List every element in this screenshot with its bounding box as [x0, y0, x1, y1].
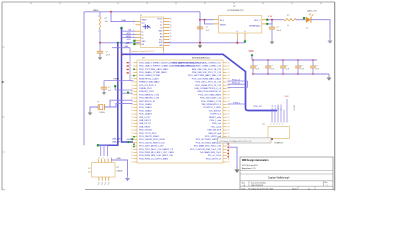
op U1 USB power switch box: [141, 17, 164, 48]
svg-text:PIO0_PWM_MCU_BDLY_OUT_CAP0: PIO0_PWM_MCU_BDLY_OUT_CAP0: [139, 151, 175, 154]
C9 junctions: [312, 59, 314, 75]
C5 designator and value: [255, 66, 260, 71]
svg-text:MM Design Automation: MM Design Automation: [242, 159, 269, 162]
svg-text:21: 21: [131, 133, 133, 135]
svg-text:USB_DM: USB_DM: [112, 138, 121, 140]
svg-text:CTRL: CTRL: [126, 42, 131, 44]
svg-text:PIO1_19/DTR_SSEL1: PIO1_19/DTR_SSEL1: [139, 136, 160, 138]
svg-text:13: 13: [170, 27, 172, 29]
U3 left pin stubs: [133, 63, 137, 162]
svg-text:21: 21: [131, 126, 133, 128]
svg-text:1k: 1k: [287, 25, 289, 27]
svg-text:Caption Walkthrough: Caption Walkthrough: [268, 176, 290, 179]
green junction dots lower-left: [114, 85, 129, 94]
svg-text:RESET_mba: RESET_mba: [209, 117, 222, 119]
svg-text:Sheet: Sheet: [292, 187, 297, 190]
svg-text:21: 21: [131, 149, 133, 151]
wires from data pair to U1 pins: [122, 31, 136, 37]
svg-text:28: 28: [228, 120, 230, 122]
svg-text:VOUT: VOUT: [157, 18, 163, 20]
U1 USB logo glyph: [143, 24, 152, 29]
svg-text:3-4: 3-4: [88, 171, 91, 173]
svg-text:PIO0_16/AD5_CT32B1_MAT3: PIO0_16/AD5_CT32B1_MAT3: [139, 71, 168, 74]
thick wire USB data line A vertical to connector: [98, 43, 118, 146]
svg-text:Thursday, December 30, 2021: Thursday, December 30, 2021: [248, 187, 273, 190]
svg-text:SHD: SHD: [122, 20, 127, 22]
svg-text:PIO0_9/MOSI0_CT16: PIO0_9/MOSI0_CT16: [139, 98, 160, 100]
svg-text:PIO0_PWM_ana_GPIO1_MAT2: PIO0_PWM_ana_GPIO1_MAT2: [139, 157, 169, 160]
svg-text:PIO1_21/DCD_MISO1_CLK: PIO1_21/DCD_MISO1_CLK: [139, 142, 165, 144]
C9 designator and value: [315, 66, 320, 71]
svg-text:P?: P?: [263, 124, 265, 126]
svg-text:21: 21: [131, 110, 133, 112]
green dots at USB data entry: [127, 136, 135, 148]
SWD vertical wires: [272, 99, 287, 123]
J1 bottom GND labels: [97, 181, 111, 186]
svg-text:OUT_J: OUT_J: [254, 20, 260, 22]
svg-text:USB_DM_dm8: USB_DM_dm8: [207, 130, 222, 132]
op U3 MCU box: [137, 60, 223, 163]
title date row: [242, 187, 310, 190]
U2 left pin stubs: [214, 20, 219, 24]
parameter set gray box: [218, 138, 272, 143]
svg-text:PRE_AKE_PWRDY_BUSY3_BVAGU_CVKH: PRE_AKE_PWRDY_BUSY3_BVAGU_CVKHN_CVO: [173, 61, 221, 64]
svg-text:21: 21: [131, 113, 133, 115]
J1 top pin stubs: [98, 159, 111, 163]
svg-text:21: 21: [131, 145, 133, 147]
svg-text:Y?: Y?: [97, 102, 99, 104]
wires VBUS/data into USB connector top pins: [98, 145, 107, 156]
svg-text:LT1962EMS8 (P5): LT1962EMS8 (P5): [227, 10, 244, 12]
svg-text:10k: 10k: [105, 21, 108, 23]
svg-text:PIO0_17/CT32B0_CAP0_UAD3: PIO0_17/CT32B0_CAP0_UAD3: [139, 68, 169, 71]
svg-text:I386-12345678: I386-12345678: [251, 185, 263, 187]
svg-text:VSS_3_PIO: VSS_3_PIO: [139, 117, 150, 119]
svg-text:USB_VBUS: USB_VBUS: [139, 126, 151, 128]
svg-text:GND: GND: [158, 30, 163, 32]
svg-text:PRE_USB_SOF_PIO1_27_C13: PRE_USB_SOF_PIO1_27_C13: [192, 72, 222, 74]
svg-text:TDO/PIO1_2_SWO: TDO/PIO1_2_SWO: [203, 107, 221, 109]
svg-text:21: 21: [131, 123, 133, 125]
svg-text:SOMROS: SOMROS: [274, 142, 283, 144]
svg-text:RESET/PIO0_0_AD3: RESET/PIO0_0_AD3: [139, 77, 159, 80]
U1 left pin stubs: [136, 22, 141, 44]
wire VBUS horizontal rail: [84, 11, 200, 13]
wire VBUS left drop to USB connector (thick): [83, 12, 85, 146]
svg-text:11: 11: [170, 33, 172, 35]
svg-text:TMS_SWDIO/PIO1_3: TMS_SWDIO/PIO1_3: [201, 104, 222, 106]
svg-text:28: 28: [228, 66, 230, 68]
green dot under VDD: [251, 54, 253, 56]
svg-text:C?: C?: [300, 66, 302, 68]
capacitor C2 designator and value: [206, 27, 210, 32]
resistor R2 LED series: [284, 19, 296, 21]
svg-text:GACL-T20: GACL-T20: [307, 10, 317, 13]
svg-text:VDD_IO3_PIO2_3: VDD_IO3_PIO2_3: [139, 85, 157, 87]
svg-text:Anywhere, CO: Anywhere, CO: [242, 167, 256, 170]
svg-text:C?: C?: [270, 66, 272, 68]
title address lines: [242, 164, 258, 170]
svg-text:XTALIN_PIO2: XTALIN_PIO2: [139, 87, 153, 90]
svg-text:GND: GND: [142, 41, 147, 43]
U3 right pin stubs: [223, 63, 227, 162]
svg-text:PRE_ALE_PWROT_UBWY_CUBIN_CVBNe: PRE_ALE_PWROT_UBWY_CUBIN_CVBNe_C10: [175, 65, 221, 68]
svg-text:USB_DP_dp8: USB_DP_dp8: [208, 133, 222, 135]
svg-text:TDO_S: TDO_S: [278, 106, 280, 111]
resistor R1 pin numbers: [98, 16, 99, 33]
svg-text:PIO1_26/CT32B0_MAT2_UAD_C13: PIO1_26/CT32B0_MAT2_UAD_C13: [188, 74, 222, 77]
svg-text:TXD_samd: TXD_samd: [211, 126, 221, 128]
svg-text:PIO0_4/SCL_PIO1_24_C13: PIO0_4/SCL_PIO1_24_C13: [195, 82, 221, 84]
svg-text:U?: U?: [117, 167, 119, 169]
svg-text:PIO0_15/AD4_CT32B1: PIO0_15/AD4_CT32B1: [139, 74, 161, 77]
cap bank top rail: [252, 59, 317, 61]
svg-text:R?: R?: [287, 15, 289, 17]
svg-text:USB_DM_P2: USB_DM_P2: [139, 120, 152, 122]
svg-text:PIO0_1_nba: PIO0_1_nba: [210, 120, 222, 122]
svg-text:21: 21: [131, 120, 133, 122]
svg-text:21: 21: [131, 97, 133, 99]
svg-text:28: 28: [228, 162, 230, 164]
svg-text:8: 8: [170, 42, 171, 44]
capacitor C1 with ground: [97, 43, 103, 60]
sheet frame top border with zone ticks: [2, 2, 335, 4]
svg-text:21: 21: [131, 136, 133, 138]
bypass capacitor C6: [265, 60, 271, 74]
capacitor C3 designator and value: [277, 27, 282, 32]
U1 right pin stubs: [164, 19, 169, 46]
J1 left labels: [88, 168, 91, 173]
svg-text:2: 2: [133, 23, 134, 25]
svg-text:PIO0_6/SCK0: PIO0_6/SCK0: [139, 130, 153, 132]
svg-text:Rev: Rev: [325, 182, 328, 184]
svg-text:C?: C?: [315, 66, 317, 68]
U1 bottom pin stub down: [163, 48, 165, 53]
svg-text:PIO0_2-0: PIO0_2-0: [254, 106, 262, 108]
svg-text:21: 21: [131, 91, 133, 93]
svg-text:28: 28: [228, 82, 230, 84]
svg-text:PIO0_10: PIO0_10: [232, 83, 241, 85]
svg-text:12: 12: [170, 30, 172, 32]
C7 designator and value: [285, 66, 290, 71]
capacitor C4 designator: [108, 87, 112, 92]
resistor R1 vertical with pin stubs: [99, 12, 101, 43]
green junction at top of USB data pair: [120, 27, 123, 30]
svg-text:28: 28: [228, 69, 230, 71]
SWD vertical net labels: [272, 104, 283, 111]
svg-text:USB_DP_P2: USB_DP_P2: [139, 123, 152, 125]
cap bank bottom rail: [252, 73, 329, 75]
svg-text:PIO1_25/CT32B0_MAT1_UAD3: PIO1_25/CT32B0_MAT1_UAD3: [192, 77, 222, 80]
svg-text:28: 28: [228, 72, 230, 74]
svg-text:USB_FTOGGLE/PIO0_22: USB_FTOGGLE/PIO0_22: [197, 91, 222, 93]
U3 left pin numbers top group (red): [127, 62, 135, 77]
bypass capacitor C7: [280, 60, 286, 74]
green dot on U2 gnd stub: [244, 40, 246, 42]
svg-text:Customize for Signal Use P0_12: Customize for Signal Use P0_12: [130, 50, 154, 53]
svg-text:21: 21: [131, 88, 133, 90]
svg-text:C?: C?: [285, 66, 287, 68]
svg-text:XTALOUT_PIO2: XTALOUT_PIO2: [139, 90, 155, 93]
svg-text:PIO2_0/DTR_x3: PIO2_0/DTR_x3: [206, 158, 222, 160]
LED D1: [306, 14, 314, 23]
svg-text:21: 21: [131, 152, 133, 154]
svg-text:PWM?: PWM?: [114, 78, 120, 80]
svg-text:1 3 5 7 9: 1 3 5 7 9: [271, 124, 284, 126]
title block outer box: [240, 157, 333, 190]
sheet frame bottom border: [2, 189, 335, 191]
svg-text:PIO1_22/RI_MOSI1_CLK2: PIO1_22/RI_MOSI1_CLK2: [139, 146, 164, 148]
wire 3V3 from U2 output: [268, 20, 284, 24]
connector P1 SWD header box: [268, 127, 290, 139]
svg-text:TCK_SWCLK: TCK_SWCLK: [208, 110, 221, 112]
C6 designator and value: [270, 66, 275, 71]
wire to U2 EN pin: [205, 20, 214, 24]
svg-text:28: 28: [228, 78, 230, 80]
title block vertical dividers: [249, 181, 324, 190]
svg-text:21: 21: [131, 117, 133, 119]
C5 junctions: [252, 59, 254, 75]
C7 junctions: [282, 59, 284, 75]
svg-text:21: 21: [131, 155, 133, 157]
ground below input cap: [198, 43, 203, 48]
sheet frame right border: [334, 2, 336, 191]
U3 interior pin names left column: [139, 61, 201, 160]
svg-text:GND: GND: [117, 158, 122, 160]
capacitor C1 designator and value: [106, 51, 111, 56]
svg-text:21: 21: [131, 161, 133, 163]
svg-text:Document Number: Document Number: [251, 181, 266, 184]
svg-text:SHDN: SHDN: [220, 24, 226, 26]
U1 left pin numbers: [133, 20, 134, 38]
C8 designator and value: [300, 66, 305, 71]
U2 bottom pin marks: [237, 31, 247, 33]
svg-text:14: 14: [170, 24, 172, 26]
net labels USB_DM USB_DP: [112, 138, 121, 143]
svg-text:TxD_MAIN_NRF_TxD2: TxD_MAIN_NRF_TxD2: [200, 151, 222, 154]
svg-text:28: 28: [228, 88, 230, 90]
svg-text:21: 21: [131, 75, 133, 77]
bypass capacitor C8: [295, 60, 301, 74]
junction at regulator ground rail: [199, 42, 201, 44]
svg-text:TDI/PIO1_0: TDI/PIO1_0: [210, 114, 222, 116]
svg-text:28: 28: [228, 110, 230, 112]
svg-text:21: 21: [131, 107, 133, 109]
svg-text:USB_CONNECT/PIO0_6_L3: USB_CONNECT/PIO0_6_L3: [195, 88, 222, 90]
wire VBUS corner down to regulator input: [199, 12, 201, 43]
U1 right pin numbers: [170, 18, 172, 47]
U3 interior pin names right column: [173, 61, 222, 160]
svg-text:28: 28: [228, 85, 230, 87]
svg-text:PIO0_PWM_NRF_CLK1_MAT1_C30: PIO0_PWM_NRF_CLK1_MAT1_C30: [139, 154, 174, 157]
U3 left pin numbers: [131, 75, 133, 163]
svg-text:1: 1: [98, 16, 99, 18]
title block horizontal dividers: [240, 171, 333, 187]
svg-text:TMS_SW: TMS_SW: [272, 104, 274, 111]
svg-text:21: 21: [131, 94, 133, 96]
svg-text:28: 28: [228, 107, 230, 109]
svg-text:Date:: Date:: [242, 187, 247, 190]
svg-text:9: 9: [170, 39, 171, 41]
svg-text:PIO1_20/DSR_SCK1_MOSI: PIO1_20/DSR_SCK1_MOSI: [139, 139, 165, 141]
svg-text:28: 28: [228, 117, 230, 119]
U3 right pin red dots lower group: [227, 143, 229, 157]
connector J1 USB-B box: [92, 163, 116, 178]
svg-text:MC9S08JM60CLD: MC9S08JM60CLD: [192, 58, 211, 60]
ground at cap bank end: [326, 74, 331, 81]
svg-text:U?: U?: [233, 6, 235, 8]
op U2 LDO regulator box: [219, 16, 262, 33]
green junction VBUS joins thick pair: [97, 144, 100, 147]
svg-text:SENSE/ADJ: SENSE/ADJ: [249, 24, 260, 27]
directive label right of parameter box: [271, 138, 283, 144]
C6 junctions: [267, 59, 269, 75]
svg-text:VDD: VDD: [249, 51, 254, 53]
svg-text:PIO0_21/CT16B1_MAT0: PIO0_21/CT16B1_MAT0: [198, 93, 221, 96]
svg-text:AKE_USB_CDE_PIO1_28_C13: AKE_USB_CDE_PIO1_28_C13: [192, 68, 222, 71]
svg-text:PIO_x2_CLK0: PIO_x2_CLK0: [208, 155, 222, 157]
svg-text:16: 16: [170, 18, 172, 20]
junction R1/C1 bottom: [99, 42, 101, 44]
svg-text:21: 21: [131, 142, 133, 144]
wire 3V3 rail (regulator ground return rail): [100, 42, 245, 44]
svg-text:28: 28: [228, 133, 230, 135]
svg-text:5-2: 5-2: [88, 168, 91, 170]
svg-text:PIO0_14/AD3: PIO0_14/AD3: [139, 113, 152, 116]
svg-text:pO Voltage: PIO0/Adm/GPIO=3.3V: pO Voltage: PIO0/Adm/GPIO=3.3V +C3: [220, 140, 252, 143]
svg-text:PIO0_2/SSEL0_CT16: PIO0_2/SSEL0_CT16: [201, 101, 222, 103]
svg-text:7: 7: [170, 45, 171, 47]
svg-text:3 2 1 4: 3 2 1 4: [99, 157, 114, 159]
svg-text:21: 21: [131, 158, 133, 160]
junction regulator IN: [199, 19, 201, 21]
svg-text:28: 28: [228, 158, 230, 160]
wire crystal to ground: [90, 107, 98, 111]
wire shield GND with label: [111, 158, 127, 176]
svg-text:PIO0_8/MISO0_CT16: PIO0_8/MISO0_CT16: [139, 94, 160, 96]
wires XTALIN XTALOUT to MCU: [104, 100, 132, 107]
U2 designator and part number: [227, 6, 244, 12]
wires MCU right pins to SWD column: [228, 81, 248, 104]
svg-text:21: 21: [131, 78, 133, 80]
wire to U2 IN pin: [200, 19, 214, 21]
U2 right pin green dots: [266, 19, 268, 26]
svg-text:10uF: 10uF: [277, 30, 282, 32]
U2 pin names: [220, 20, 260, 28]
svg-text:3.3V: 3.3V: [285, 96, 290, 98]
junction EN tap: [204, 19, 206, 21]
svg-text:PIO0_5/SDA_PIO1_23_C13: PIO0_5/SDA_PIO1_23_C13: [195, 84, 222, 87]
wire PWM to MCU: [104, 80, 133, 82]
ground at USB shield: [125, 176, 130, 181]
J1 designator USB-B: [117, 167, 124, 172]
svg-text:IN_J: IN_J: [220, 20, 224, 22]
svg-text:28: 28: [228, 91, 230, 93]
ground below crystal: [88, 111, 93, 116]
C8 junctions: [297, 59, 299, 75]
junction on VBUS at U1 tap: [110, 11, 112, 13]
wire resistor to LED: [296, 19, 306, 21]
svg-text:PIO0_1: PIO0_1: [234, 102, 242, 104]
bypass capacitor C9: [310, 60, 316, 74]
svg-text:28: 28: [228, 94, 230, 96]
svg-text:28: 28: [228, 62, 230, 64]
svg-text:21: 21: [131, 129, 133, 131]
svg-text:PIO0_11/AD0: PIO0_11/AD0: [139, 103, 152, 106]
wire USB_DP into MCU: [127, 138, 134, 140]
title size/doc row: [242, 181, 328, 187]
ground at LED return: [327, 38, 332, 43]
capacitor C3 on 3V3 output with ground: [269, 20, 275, 45]
wire VDD feed to cap bank: [251, 55, 253, 60]
crystal Y1: [98, 104, 104, 110]
svg-text:28: 28: [228, 98, 230, 100]
junction 3V3 at output cap: [271, 19, 273, 21]
svg-text:10: 10: [170, 36, 172, 38]
U1 right pin names: [157, 18, 163, 47]
U1 left side net labels: [126, 30, 132, 45]
svg-text:GPO: GPO: [127, 39, 132, 41]
svg-text:1: 1: [327, 185, 328, 187]
green pin dots where USB pair crosses rail: [117, 42, 123, 44]
net labels at rail crossing: [125, 43, 129, 48]
svg-text:RESET: RESET: [294, 105, 296, 111]
svg-text:28: 28: [228, 114, 230, 116]
svg-text:D+: D+: [142, 35, 144, 37]
svg-text:21: 21: [131, 81, 133, 83]
svg-text:2: 2: [98, 31, 99, 33]
svg-text:C?: C?: [108, 87, 110, 89]
green dot at LED anode: [303, 17, 305, 19]
svg-text:123 Tech park Dr: 123 Tech park Dr: [242, 164, 258, 167]
svg-text:C?: C?: [255, 66, 257, 68]
sheet frame left border with zone ticks: [2, 2, 5, 190]
svg-text:USB_DP: USB_DP: [112, 141, 121, 143]
U3 right pin numbers: [228, 62, 230, 163]
thick bus horizontal / diagonal / vertical: [122, 54, 277, 110]
svg-text:28: 28: [228, 130, 230, 132]
svg-text:SWCLK/PIO0_10: SWCLK/PIO0_10: [139, 101, 156, 103]
svg-text:ILIM: ILIM: [159, 42, 163, 44]
svg-text:1: 1: [133, 20, 134, 22]
svg-text:RXD_ua3: RXD_ua3: [212, 123, 222, 125]
wire MCU bottom right to ground: [228, 147, 238, 168]
svg-text:PIO0_12/AD1: PIO0_12/AD1: [139, 106, 152, 109]
svg-text:PIO0_TXD1_BDLY_CLK_MAT02_C3: PIO0_TXD1_BDLY_CLK_MAT02_C3: [139, 148, 174, 151]
svg-text:21: 21: [131, 101, 133, 103]
capacitor C2 on regulator input: [197, 27, 203, 29]
J1 bottom pin stubs: [99, 177, 109, 181]
svg-text:USB-B: USB-B: [117, 170, 124, 172]
wire LED cathode to ground: [311, 20, 330, 39]
U1 green connected-pin bars: [133, 40, 135, 45]
wires into MCU lower-left pins: [115, 86, 132, 93]
svg-text:28: 28: [228, 126, 230, 128]
svg-text:12MHz: 12MHz: [99, 112, 105, 114]
ground MCU bottom right: [234, 167, 239, 173]
svg-text:PWM0/CT16B0_MAT2: PWM0/CT16B0_MAT2: [139, 81, 161, 84]
svg-text:21: 21: [131, 104, 133, 106]
svg-text:3.3V: 3.3V: [268, 16, 273, 18]
svg-text:PIO0_7/CTS_PIO2: PIO0_7/CTS_PIO2: [139, 133, 157, 135]
svg-text:21: 21: [131, 85, 133, 87]
U1 left inside pin names: [142, 19, 148, 46]
svg-text:15: 15: [170, 21, 172, 23]
capacitor C4 on PWM node with ground: [101, 81, 107, 95]
svg-text:10uF: 10uF: [106, 54, 111, 56]
svg-text:D?: D?: [306, 28, 308, 30]
junction U2 gnd on rail: [236, 42, 238, 44]
